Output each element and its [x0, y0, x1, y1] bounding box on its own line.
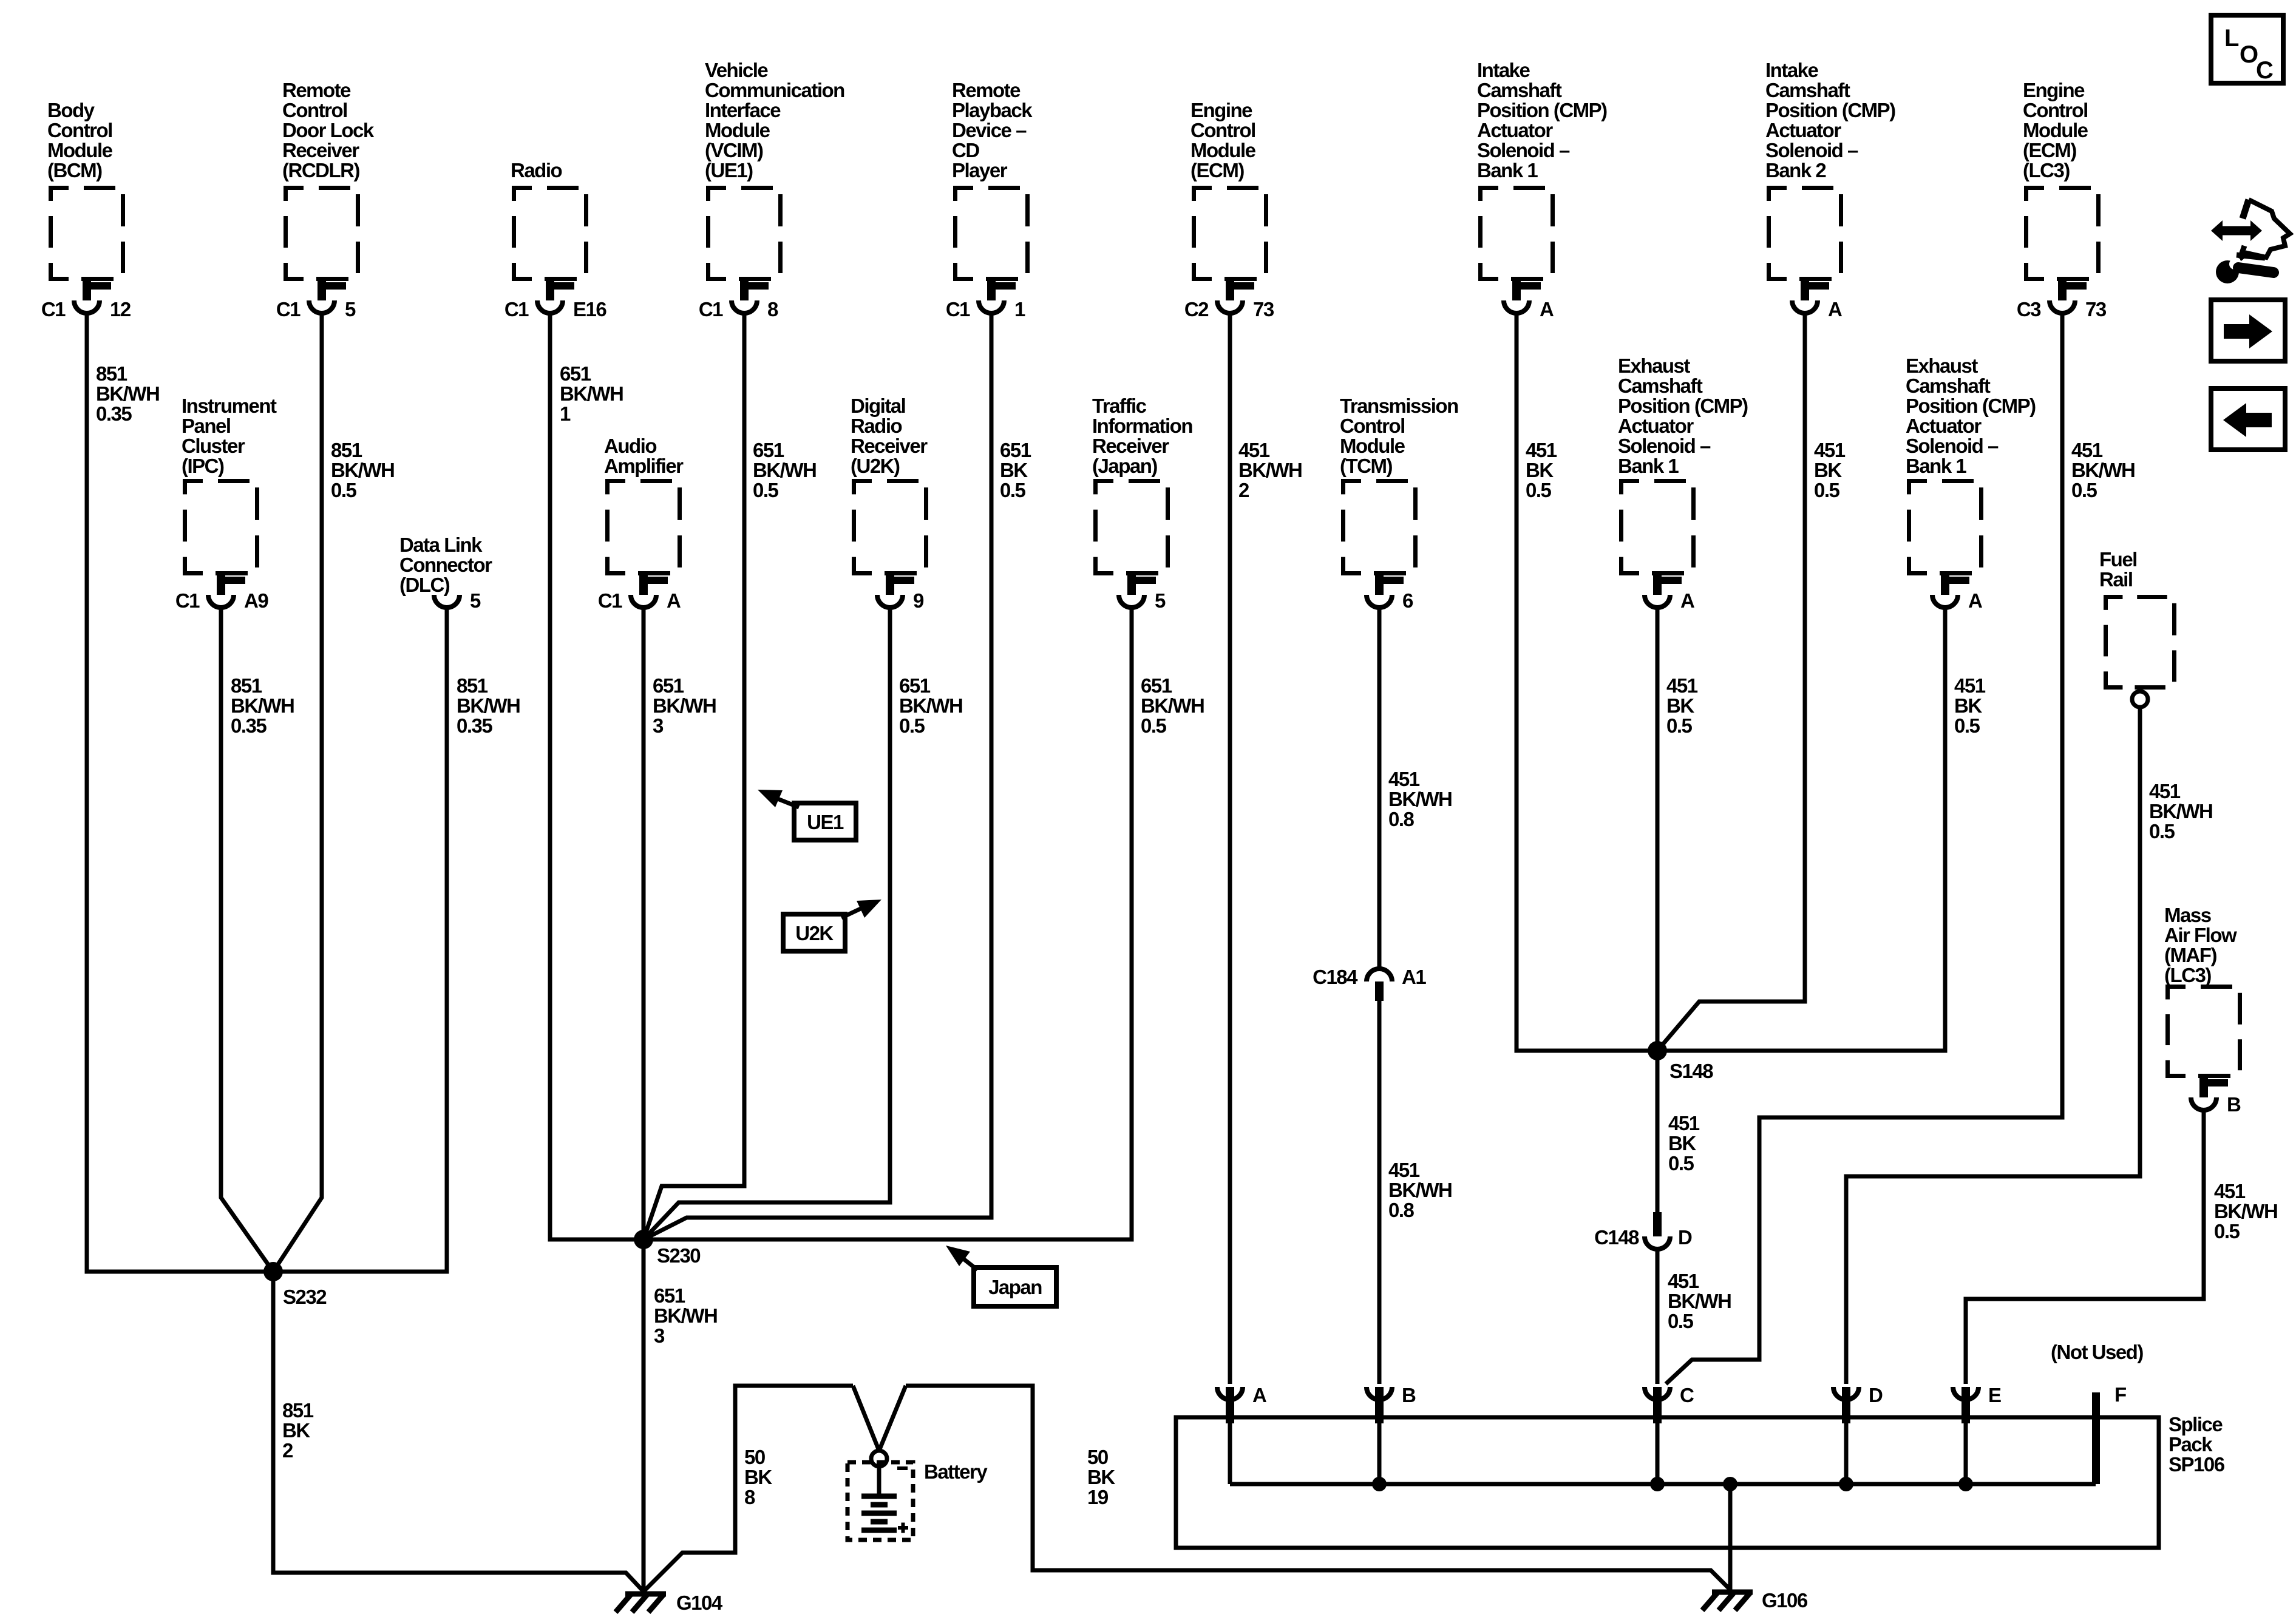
svg-text:Instrument: Instrument: [182, 395, 277, 417]
svg-text:Panel: Panel: [182, 415, 231, 437]
connector pin DLC 5: [434, 589, 481, 612]
wire label Intake CMP bank1 451 BK 0.5: [1526, 439, 1557, 501]
svg-text:D: D: [1869, 1384, 1883, 1406]
svg-text:S232: S232: [283, 1286, 327, 1308]
wire Intake CMP bank2 to S148: [1657, 315, 1805, 1051]
svg-text:Data Link: Data Link: [399, 534, 483, 556]
svg-text:F: F: [2114, 1383, 2126, 1406]
svg-text:9: 9: [913, 589, 924, 612]
svg-text:BK: BK: [282, 1419, 310, 1442]
svg-text:Japan: Japan: [988, 1276, 1042, 1298]
wire label ECM 451 BK/WH 2: [1238, 439, 1302, 501]
svg-text:A: A: [1680, 589, 1694, 612]
component VCIM box+label: [705, 59, 844, 279]
wire label Digital Radio Receiver U2K 651 BK/WH 0.5: [899, 674, 962, 737]
component ECM box+label: [1190, 99, 1266, 279]
svg-text:2: 2: [1238, 479, 1249, 501]
callout Japan: [946, 1246, 1056, 1306]
svg-text:CD: CD: [952, 139, 979, 161]
svg-text:651: 651: [654, 1284, 685, 1307]
component Audio Amplifier box+label: [604, 435, 684, 574]
svg-text:Transmission: Transmission: [1340, 395, 1458, 417]
svg-text:Traffic: Traffic: [1092, 395, 1147, 417]
svg-text:BK/WH: BK/WH: [1668, 1290, 1731, 1312]
svg-text:Position (CMP): Position (CMP): [1477, 99, 1607, 121]
wire label MAF 451 BK/WH 0.5: [2214, 1180, 2277, 1242]
connector pin VCIM C1/8: [699, 280, 778, 320]
svg-text:(U2K): (U2K): [851, 455, 900, 477]
connector pin ECM LC3 C3/73: [2017, 280, 2107, 320]
svg-text:5: 5: [470, 589, 481, 612]
svg-text:3: 3: [653, 714, 664, 737]
svg-text:Module: Module: [1190, 139, 1256, 161]
splice pigtail D: [1833, 1384, 1883, 1484]
component Radio box+label: [511, 159, 586, 279]
svg-text:C: C: [1680, 1384, 1694, 1406]
svg-text:Door Lock: Door Lock: [282, 119, 375, 141]
svg-text:BK: BK: [1087, 1466, 1115, 1488]
svg-text:451: 451: [2071, 439, 2103, 461]
svg-text:Solenoid –: Solenoid –: [1618, 435, 1711, 457]
svg-text:B: B: [1402, 1384, 1416, 1406]
svg-text:0.5: 0.5: [2071, 479, 2097, 501]
splice bus junction D: [1839, 1477, 1853, 1491]
svg-text:Communication: Communication: [705, 79, 844, 101]
svg-text:0.5: 0.5: [1668, 1152, 1694, 1175]
svg-text:Module: Module: [1340, 435, 1405, 457]
wire label VCIM 651 BK/WH 0.5: [753, 439, 816, 501]
svg-text:0.5: 0.5: [899, 714, 925, 737]
wire label Intake CMP bank2 451 BK 0.5: [1814, 439, 1846, 501]
svg-text:Receiver: Receiver: [851, 435, 928, 457]
connector C184 A1: [1313, 966, 1426, 1001]
svg-text:Camshaft: Camshaft: [1906, 375, 1991, 397]
svg-text:G106: G106: [1762, 1589, 1808, 1612]
svg-text:Vehicle: Vehicle: [705, 59, 768, 81]
svg-text:451: 451: [1238, 439, 1270, 461]
svg-text:0.5: 0.5: [1141, 714, 1167, 737]
splice pack SP106 outline: [1176, 1417, 2159, 1548]
svg-text:Connector: Connector: [399, 554, 492, 576]
svg-text:BK: BK: [1954, 694, 1982, 717]
wire Traffic receiver to S230: [644, 609, 1132, 1239]
wire MAF to splice E: [1966, 1112, 2204, 1384]
svg-text:Camshaft: Camshaft: [1477, 79, 1562, 101]
wire BCM to S232: [87, 315, 273, 1272]
callout UE1: [758, 790, 856, 840]
svg-text:Module: Module: [705, 119, 770, 141]
svg-text:C1: C1: [41, 298, 66, 320]
svg-text:0.5: 0.5: [1954, 714, 1980, 737]
svg-text:BK: BK: [1526, 459, 1554, 481]
svg-text:O: O: [2240, 41, 2258, 68]
svg-text:A: A: [1540, 298, 1554, 320]
svg-text:S230: S230: [657, 1244, 700, 1267]
svg-text:3: 3: [654, 1324, 665, 1347]
svg-text:0.35: 0.35: [231, 714, 267, 737]
connector pin Radio C1/E16: [504, 280, 607, 320]
wire label TCM 451 BK/WH 0.8: [1388, 768, 1452, 830]
svg-text:SP106: SP106: [2169, 1453, 2225, 1476]
connector pin Traffic Information Receiver /5: [1119, 574, 1166, 612]
svg-text:Mass: Mass: [2164, 904, 2211, 926]
wire C184 to splice B: [1377, 1001, 1382, 1384]
svg-text:S148: S148: [1669, 1060, 1713, 1082]
splice pigtail B: [1367, 1384, 1416, 1484]
wire label IPC 851 BK/WH 0.35: [231, 674, 294, 737]
component Intake CMP bank2 box+label: [1765, 59, 1895, 279]
wire label Traffic Information Receiver 651 BK/WH 0.5: [1141, 674, 1204, 737]
svg-text:(IPC): (IPC): [182, 455, 224, 477]
svg-text:2: 2: [282, 1439, 293, 1462]
component DLC label: [399, 534, 492, 596]
svg-text:BK: BK: [1000, 459, 1028, 481]
svg-text:Camshaft: Camshaft: [1618, 375, 1703, 397]
connector pin Exhaust CMP bank1 A /A: [1645, 574, 1694, 612]
svg-text:Control: Control: [282, 99, 347, 121]
svg-text:1: 1: [1014, 298, 1025, 320]
wire label ECM LC3 451 BK/WH 0.5: [2071, 439, 2135, 501]
connector pin MAF B: [2191, 1077, 2241, 1116]
svg-text:451: 451: [1954, 674, 1986, 697]
svg-text:Battery: Battery: [924, 1460, 988, 1483]
wire IPC to S232: [221, 609, 273, 1272]
svg-text:451: 451: [1526, 439, 1557, 461]
splice bus junction C: [1650, 1477, 1665, 1491]
wire battery negative left to G104: [644, 1386, 853, 1592]
svg-text:Position (CMP): Position (CMP): [1765, 99, 1895, 121]
svg-text:C1: C1: [504, 298, 529, 320]
svg-text:Control: Control: [1190, 119, 1255, 141]
svg-text:BK/WH: BK/WH: [1141, 694, 1204, 717]
svg-text:C: C: [2256, 57, 2273, 84]
svg-text:BK/WH: BK/WH: [2071, 459, 2135, 481]
svg-text:Camshaft: Camshaft: [1765, 79, 1850, 101]
svg-text:(BCM): (BCM): [47, 159, 102, 181]
component TCM box+label: [1340, 395, 1458, 574]
wire label BCM 851 BK/WH 0.35: [96, 362, 159, 425]
svg-text:0.5: 0.5: [1666, 714, 1693, 737]
svg-text:BK: BK: [1666, 694, 1694, 717]
svg-text:BK/WH: BK/WH: [2149, 800, 2212, 822]
svg-text:C184: C184: [1313, 966, 1358, 988]
svg-text:0.8: 0.8: [1388, 808, 1415, 830]
svg-text:Solenoid –: Solenoid –: [1477, 139, 1570, 161]
svg-text:0.5: 0.5: [331, 479, 357, 501]
wire ECM LC3 to splice C: [1666, 315, 2062, 1384]
wire label battery right 50 BK 19: [1087, 1446, 1115, 1508]
svg-text:851: 851: [231, 674, 262, 697]
svg-text:Position (CMP): Position (CMP): [1906, 395, 2036, 417]
svg-text:BK/WH: BK/WH: [1388, 788, 1452, 810]
node S148: [1648, 1041, 1713, 1082]
wire DLC to S232: [273, 609, 447, 1272]
svg-text:0.8: 0.8: [1388, 1199, 1415, 1221]
svg-text:Control: Control: [2023, 99, 2088, 121]
svg-text:Radio: Radio: [511, 159, 562, 181]
component IPC box+label: [182, 395, 277, 574]
svg-text:Device –: Device –: [952, 119, 1027, 141]
svg-text:U2K: U2K: [795, 922, 834, 944]
svg-text:8: 8: [767, 298, 778, 320]
svg-text:651: 651: [653, 674, 684, 697]
battery symbol: [847, 1462, 913, 1540]
svg-text:451: 451: [1668, 1112, 1700, 1134]
svg-text:C1: C1: [946, 298, 970, 320]
svg-text:C1: C1: [175, 589, 200, 612]
splice bus junction B: [1372, 1477, 1387, 1491]
component BCM box+label: [47, 99, 123, 279]
svg-text:G104: G104: [676, 1592, 723, 1614]
connector pin Audio Amplifier C1/A: [598, 574, 681, 612]
svg-text:73: 73: [2085, 298, 2107, 320]
svg-text:Intake: Intake: [1477, 59, 1530, 81]
component ECM LC3 box+label: [2023, 79, 2099, 279]
node S230: [634, 1230, 700, 1267]
svg-text:BK/WH: BK/WH: [457, 694, 520, 717]
wire label RCDLR 851 BK/WH 0.5: [331, 439, 394, 501]
svg-text:BK: BK: [744, 1466, 772, 1488]
wire label C148 451 BK/WH 0.5: [1668, 1270, 1731, 1332]
connector pin Exhaust CMP bank1 B /A: [1932, 574, 1982, 612]
svg-text:Receiver: Receiver: [282, 139, 359, 161]
component Digital Radio Receiver U2K box+label: [851, 395, 928, 574]
svg-text:UE1: UE1: [807, 811, 844, 833]
svg-text:5: 5: [1155, 589, 1166, 612]
svg-text:651: 651: [899, 674, 931, 697]
svg-text:451: 451: [2214, 1180, 2246, 1202]
svg-text:451: 451: [2149, 780, 2181, 802]
svg-text:Splice: Splice: [2169, 1413, 2223, 1436]
svg-text:Module: Module: [2023, 119, 2088, 141]
svg-text:451: 451: [1668, 1270, 1699, 1292]
svg-text:Body: Body: [47, 99, 95, 121]
svg-text:0.35: 0.35: [457, 714, 492, 737]
connector pin Intake CMP bank2 /A: [1792, 280, 1842, 320]
icon repair info: [2211, 200, 2290, 283]
svg-text:Interface: Interface: [705, 99, 781, 121]
svg-text:5: 5: [345, 298, 356, 320]
svg-text:0.5: 0.5: [1668, 1310, 1694, 1332]
node S232: [263, 1262, 327, 1308]
svg-text:851: 851: [331, 439, 362, 461]
svg-text:Actuator: Actuator: [1765, 119, 1841, 141]
svg-text:0.35: 0.35: [96, 402, 132, 425]
svg-text:Bank 1: Bank 1: [1906, 455, 1966, 477]
svg-text:A9: A9: [244, 589, 268, 612]
wire label battery left 50 BK 8: [744, 1446, 772, 1508]
svg-text:C148: C148: [1594, 1226, 1639, 1249]
svg-text:19: 19: [1087, 1486, 1109, 1508]
svg-text:451: 451: [1388, 1159, 1420, 1181]
connector pin BCM C1/12: [41, 280, 131, 320]
splice bus junction E: [1958, 1477, 1973, 1491]
svg-text:BK/WH: BK/WH: [654, 1304, 717, 1327]
wire label Exhaust CMP bank1 B 451 BK 0.5: [1954, 674, 1986, 737]
svg-text:Actuator: Actuator: [1906, 415, 1982, 437]
svg-text:(RCDLR): (RCDLR): [282, 159, 359, 181]
svg-text:A1: A1: [1402, 966, 1426, 988]
svg-text:(ECM): (ECM): [2023, 139, 2076, 161]
connector pin Intake CMP bank1 /A: [1504, 280, 1554, 320]
connector pin CD player C1/1: [946, 280, 1025, 320]
svg-text:BK/WH: BK/WH: [231, 694, 294, 717]
svg-text:Bank 2: Bank 2: [1765, 159, 1826, 181]
svg-text:Actuator: Actuator: [1477, 119, 1553, 141]
component Intake CMP bank1 box+label: [1477, 59, 1607, 279]
svg-text:L: L: [2224, 25, 2239, 52]
svg-text:Audio: Audio: [604, 435, 656, 457]
component CD player box+label: [952, 79, 1033, 279]
svg-text:B: B: [2227, 1093, 2241, 1116]
wire label Radio 651 BK/WH 1: [560, 362, 623, 425]
svg-text:50: 50: [1087, 1446, 1108, 1468]
connector pin RCDLR C1/5: [276, 280, 356, 320]
svg-text:0.5: 0.5: [2214, 1220, 2240, 1242]
svg-text:851: 851: [457, 674, 488, 697]
svg-text:D: D: [1678, 1226, 1692, 1249]
battery terminal ring: [871, 1451, 887, 1466]
svg-text:Information: Information: [1092, 415, 1192, 437]
svg-text:651: 651: [753, 439, 784, 461]
wire label S232 851 BK 2: [282, 1399, 314, 1462]
svg-text:651: 651: [560, 362, 591, 385]
svg-text:451: 451: [1814, 439, 1846, 461]
svg-text:Exhaust: Exhaust: [1906, 354, 1978, 377]
component Exhaust CMP bank1 B box+label: [1906, 354, 2036, 574]
wire label DLC 851 BK/WH 0.35: [457, 674, 520, 737]
svg-text:Remote: Remote: [282, 79, 351, 101]
svg-text:Player: Player: [952, 159, 1008, 181]
svg-text:BK: BK: [1814, 459, 1842, 481]
svg-text:(LC3): (LC3): [2023, 159, 2070, 181]
wire RCDLR to S232: [273, 315, 322, 1272]
svg-text:12: 12: [110, 298, 131, 320]
icon arrow next box: [2211, 300, 2285, 361]
svg-text:1: 1: [560, 402, 571, 425]
svg-text:E: E: [1988, 1384, 2001, 1406]
splice pigtail C: [1645, 1384, 1694, 1484]
svg-text:Rail: Rail: [2099, 568, 2133, 591]
component MAF box+label: [2164, 904, 2240, 1076]
svg-text:(ECM): (ECM): [1190, 159, 1244, 181]
wire U2K to S230: [644, 609, 890, 1239]
wire battery vee right: [879, 1386, 906, 1451]
ground G104: [616, 1592, 723, 1614]
connector Fuel Rail ring: [2132, 691, 2148, 707]
wire label Fuel Rail 451 BK/WH 0.5: [2149, 780, 2212, 842]
svg-text:(Japan): (Japan): [1092, 455, 1157, 477]
svg-text:Solenoid –: Solenoid –: [1906, 435, 1999, 457]
svg-text:Radio: Radio: [851, 415, 902, 437]
svg-text:651: 651: [1141, 674, 1172, 697]
connector pin Digital Radio Receiver U2K /9: [877, 574, 924, 612]
svg-text:(LC3): (LC3): [2164, 964, 2211, 986]
svg-text:851: 851: [282, 1399, 314, 1422]
callout U2K: [783, 900, 881, 951]
component Fuel Rail box+label: [2099, 548, 2175, 688]
svg-text:Amplifier: Amplifier: [604, 455, 684, 477]
svg-text:Engine: Engine: [2023, 79, 2085, 101]
svg-text:(MAF): (MAF): [2164, 944, 2216, 966]
wire Intake CMP bank1 to S148: [1517, 315, 1657, 1051]
svg-text:8: 8: [744, 1486, 755, 1508]
wire VCIM to S230: [644, 315, 744, 1239]
svg-text:851: 851: [96, 362, 127, 385]
splice pack label: [2169, 1413, 2225, 1476]
svg-text:(TCM): (TCM): [1340, 455, 1392, 477]
connector pin IPC C1/A9: [175, 574, 269, 612]
svg-text:BK/WH: BK/WH: [331, 459, 394, 481]
svg-text:A: A: [667, 589, 681, 612]
wire label S230 651 BK/WH 3: [654, 1284, 717, 1347]
connector pin TCM /6: [1367, 574, 1413, 612]
splice bus bar: [1230, 1482, 2096, 1486]
svg-text:0.5: 0.5: [1000, 479, 1026, 501]
svg-text:73: 73: [1253, 298, 1274, 320]
svg-text:C1: C1: [699, 298, 723, 320]
svg-text:C3: C3: [2017, 298, 2041, 320]
svg-text:Bank 1: Bank 1: [1618, 455, 1679, 477]
svg-text:BK/WH: BK/WH: [560, 382, 623, 405]
svg-text:451: 451: [1388, 768, 1420, 790]
svg-text:Position (CMP): Position (CMP): [1618, 395, 1748, 417]
wire label TCM lower 451 BK/WH 0.8: [1388, 1159, 1452, 1221]
svg-text:A: A: [1968, 589, 1982, 612]
svg-text:Pack: Pack: [2169, 1433, 2213, 1456]
svg-text:0.5: 0.5: [753, 479, 779, 501]
wire Exhaust CMP bank1 B to S148: [1662, 609, 1945, 1051]
svg-text:C1: C1: [276, 298, 301, 320]
svg-text:Control: Control: [47, 119, 112, 141]
icon arrow previous box: [2211, 388, 2285, 450]
svg-text:C1: C1: [598, 589, 622, 612]
wire label CD player 651 BK 0.5: [1000, 439, 1031, 501]
svg-text:Fuel: Fuel: [2099, 548, 2137, 571]
component RCDLR box+label: [282, 79, 375, 279]
svg-text:(Not Used): (Not Used): [2051, 1341, 2143, 1363]
ground G106: [1702, 1589, 1808, 1612]
svg-text:(DLC): (DLC): [399, 574, 450, 596]
svg-text:A: A: [1252, 1384, 1266, 1406]
svg-text:Control: Control: [1340, 415, 1405, 437]
svg-text:E16: E16: [573, 298, 606, 320]
splice pigtail E: [1953, 1384, 2001, 1484]
wire CD player to S230: [644, 315, 991, 1239]
svg-text:(VCIM): (VCIM): [705, 139, 763, 161]
svg-text:651: 651: [1000, 439, 1031, 461]
wire C148 to splice C: [1656, 1251, 1660, 1384]
wire Fuel Rail to splice D: [1846, 707, 2140, 1384]
svg-text:0.5: 0.5: [1814, 479, 1840, 501]
svg-text:Air Flow: Air Flow: [2164, 924, 2237, 946]
battery label: [924, 1460, 988, 1483]
svg-text:Bank 1: Bank 1: [1477, 159, 1538, 181]
wire battery vee left: [853, 1386, 879, 1451]
svg-text:Intake: Intake: [1765, 59, 1819, 81]
wire S230 to G104: [642, 1239, 646, 1590]
wire Radio to S230: [550, 315, 644, 1239]
svg-text:Playback: Playback: [952, 99, 1033, 121]
svg-text:Exhaust: Exhaust: [1618, 354, 1690, 377]
icon LOC box: [2211, 15, 2283, 84]
svg-text:Engine: Engine: [1190, 99, 1252, 121]
svg-text:0.5: 0.5: [2149, 820, 2175, 842]
connector C148 D: [1594, 1212, 1692, 1249]
wire battery negative right to G106: [906, 1386, 1730, 1590]
svg-text:Remote: Remote: [952, 79, 1021, 101]
splice pigtail A: [1217, 1384, 1266, 1484]
